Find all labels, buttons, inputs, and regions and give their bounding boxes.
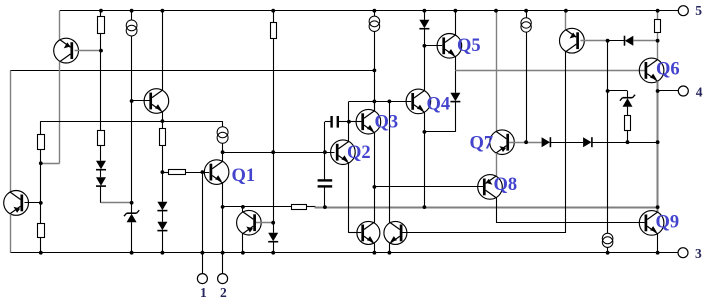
diode D6 (top rail) xyxy=(424,11,426,20)
wire Q4 emitter down xyxy=(424,112,426,207)
junction dots misc xyxy=(99,49,103,53)
capacitor C2 xyxy=(318,179,333,181)
wire Q7 emitter to Q8 collector xyxy=(496,153,498,176)
diode D9 xyxy=(583,137,591,147)
diode D7 xyxy=(450,93,460,102)
transistor Q4 xyxy=(406,89,431,114)
resistor R5 xyxy=(98,131,105,146)
wire corner x348.9 xyxy=(348,101,350,121)
terminal pin 5 xyxy=(678,6,688,16)
current source CS2 xyxy=(222,121,224,127)
wire D1-D2 xyxy=(100,170,102,178)
wire QC base xyxy=(25,202,41,204)
wire cap node vertical xyxy=(324,122,326,181)
wire Q7 collector to rail xyxy=(496,11,498,132)
current source CS3 xyxy=(374,11,376,17)
wire D4 to rail xyxy=(162,231,164,253)
wire x101 down xyxy=(100,51,102,130)
wire pin1 to Q1 base xyxy=(202,172,204,274)
wire x10 vertical upper xyxy=(10,70,12,192)
wire Z2 to R10 xyxy=(627,107,629,116)
current source CS1 xyxy=(126,20,137,31)
svg-text:3: 3 xyxy=(695,246,702,261)
wire to pin 4 xyxy=(658,90,679,92)
resistor R9 xyxy=(292,205,307,210)
wire Q5E to Q6 base xyxy=(455,70,644,72)
transistor Q5 xyxy=(437,34,462,59)
wire Q5 base xyxy=(424,45,442,47)
wire x389 vertical xyxy=(389,101,391,222)
diode D3 xyxy=(157,202,167,211)
wire C1 left lead xyxy=(325,121,331,123)
wire Q4 base net y=101 xyxy=(349,101,411,103)
svg-text:2: 2 xyxy=(220,285,227,299)
resistor R6 xyxy=(162,121,164,129)
wire Q2 emitter down xyxy=(348,163,350,233)
transistor Q2 xyxy=(331,140,356,165)
wire bottom rail (to pin 3) xyxy=(10,252,678,254)
terminal pin 4 xyxy=(678,86,688,96)
wire R5 to D1 xyxy=(100,146,102,161)
wire Z1 to rail xyxy=(131,222,133,253)
wire zener branch y=91 xyxy=(608,90,628,92)
wire Q3 emitter down xyxy=(374,133,376,223)
transistor QB xyxy=(144,89,169,114)
junction dots top rail xyxy=(99,9,103,13)
wire Q5 emitter to D7 xyxy=(455,70,457,92)
wire D5 to rail xyxy=(273,242,275,253)
wire D7 down xyxy=(455,102,457,132)
resistor R8 (Q1 base) xyxy=(169,170,186,175)
transistor Q9 xyxy=(639,211,664,236)
wire C2 to gray rail xyxy=(324,187,326,208)
wire QG emitter to rail xyxy=(565,11,567,30)
wire QF base xyxy=(403,232,566,234)
svg-text:4: 4 xyxy=(696,84,703,99)
transistor Q3 xyxy=(356,109,381,134)
wire QA base to node x101 xyxy=(75,50,102,52)
wire R9 right xyxy=(307,206,316,208)
resistor R7 xyxy=(38,224,45,238)
wire R10 down xyxy=(627,131,629,142)
wire R8 left xyxy=(162,172,168,174)
wire C1 right lead xyxy=(338,121,349,123)
transistor Q6 xyxy=(639,58,664,83)
wire D9 right xyxy=(592,142,658,144)
diode D8 xyxy=(542,137,550,147)
transistor QG (top-right PNP) xyxy=(560,28,585,53)
svg-text:Q6: Q6 xyxy=(656,60,680,80)
wire long horizontal net y=70 xyxy=(10,70,374,72)
resistor R2 xyxy=(273,11,275,23)
svg-text:Q1: Q1 xyxy=(232,166,256,186)
junction dots bottom rail xyxy=(39,251,43,255)
wire Q3 collector up xyxy=(374,101,376,111)
transistor QE (pair left) xyxy=(357,221,380,244)
wire Q1 emitter branch y=207 xyxy=(223,206,292,208)
zener Z2 xyxy=(623,98,633,107)
wire CS5 to rail xyxy=(607,247,609,252)
resistor R1 xyxy=(100,11,102,17)
wire QC emitter to rail xyxy=(10,214,12,253)
wire D2 to zener node xyxy=(101,202,132,204)
transistor QA (top-left PNP) xyxy=(54,38,79,63)
wire QD base xyxy=(256,222,273,224)
wire rail to CS1 xyxy=(131,11,133,20)
wire to D3 xyxy=(162,172,164,202)
transistor QC (left PNP) xyxy=(4,191,29,216)
wire gray mid rail y=207 xyxy=(315,207,658,209)
wire QF emitter to rail xyxy=(389,243,391,252)
svg-text:Q3: Q3 xyxy=(375,113,399,133)
svg-text:Q5: Q5 xyxy=(457,36,481,56)
wire QE emitter to rail xyxy=(374,243,376,252)
resistor R3 xyxy=(657,11,659,20)
wire Q6 emitter down (gray) xyxy=(657,81,659,212)
wire R3 to Q6 collector xyxy=(657,33,659,41)
diode D10 xyxy=(625,36,633,46)
terminal pin 3 xyxy=(678,248,688,258)
wire QB base xyxy=(132,100,150,102)
wire D8-D9 xyxy=(551,142,584,144)
wire D2 down xyxy=(100,186,102,203)
resistor R4 xyxy=(38,135,45,150)
wire Q5 collector to rail xyxy=(455,11,457,35)
svg-text:Q9: Q9 xyxy=(656,213,680,233)
wire QD emitter to rail xyxy=(242,234,244,253)
wire CS2 to Q1 collector xyxy=(222,143,224,161)
wire Q5 emitter down xyxy=(455,57,457,71)
wire Q9 emitter to rail xyxy=(657,234,659,253)
wire Q7 base xyxy=(509,142,542,144)
wire D7 corner left xyxy=(424,131,455,133)
transistor QD (PNP) xyxy=(237,210,262,235)
diode D4 xyxy=(157,222,167,231)
wire Q1 collector net y=152 xyxy=(223,152,335,154)
wire R4 down xyxy=(40,150,42,224)
wire V+ top rail xyxy=(60,10,679,12)
wire QA emitter to top rail xyxy=(59,11,61,40)
svg-text:Q2: Q2 xyxy=(347,143,371,163)
wire QD collector xyxy=(242,207,244,212)
resistor R10 xyxy=(625,116,631,131)
current source CS5 xyxy=(602,233,613,244)
wire R2 down xyxy=(273,39,275,233)
wire QG base xyxy=(580,40,607,42)
wire QB emitter down xyxy=(162,112,164,121)
wire Q2 collector up xyxy=(348,122,350,142)
wire D3-D4 xyxy=(162,211,164,222)
wire QA collector down xyxy=(59,62,61,164)
transistor QF (pair right) xyxy=(384,221,407,244)
svg-text:Q7: Q7 xyxy=(470,134,494,154)
wire corner to R4 xyxy=(40,121,42,134)
wire QG collector down xyxy=(565,52,567,233)
diode D2 xyxy=(96,177,106,186)
diode D1 xyxy=(96,161,106,170)
diode D5 xyxy=(268,233,278,242)
terminal pin 2 xyxy=(218,274,228,284)
wire R8 to Q1 base xyxy=(185,172,209,174)
transistor Q7 xyxy=(490,130,515,155)
terminal pin 1 xyxy=(197,274,207,284)
wire D10 to R3 node xyxy=(633,40,657,42)
wire CS4 down xyxy=(526,32,528,142)
wire CS1 down to zener xyxy=(131,36,133,213)
capacitor C1 xyxy=(330,116,332,128)
wire QB collector to rail xyxy=(162,11,164,91)
wire Q1 emitter to pin2 xyxy=(222,253,224,274)
wire bias net y=121 xyxy=(41,121,223,123)
zener Z1 xyxy=(127,214,137,223)
current source CS4 xyxy=(526,11,528,18)
wire Q8 base xyxy=(374,186,483,188)
wire R1 to QA base node xyxy=(100,34,102,51)
wire Q1 emitter down xyxy=(222,183,224,253)
wire R7 to rail xyxy=(40,237,42,252)
wire x607 vertical xyxy=(607,41,609,234)
svg-text:1: 1 xyxy=(200,285,207,299)
wire Q3 base xyxy=(349,121,362,123)
wire Q8 emitter down xyxy=(496,198,498,223)
wire CS3 down to Q3 xyxy=(374,31,376,111)
wire R6 down xyxy=(162,146,164,173)
transistor Q1 xyxy=(204,160,229,185)
wire D6 to Q5 base node xyxy=(424,29,426,91)
transistor Q8 xyxy=(478,175,503,200)
svg-text:5: 5 xyxy=(695,3,702,18)
svg-text:Q4: Q4 xyxy=(427,95,451,115)
svg-text:Q8: Q8 xyxy=(494,175,518,195)
